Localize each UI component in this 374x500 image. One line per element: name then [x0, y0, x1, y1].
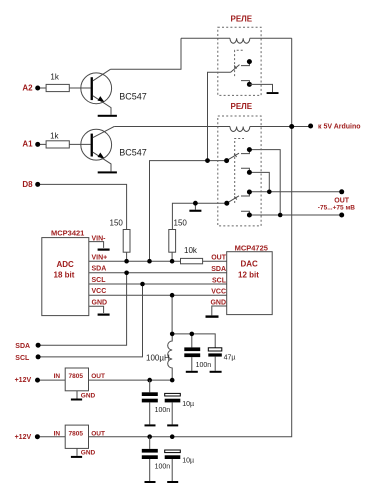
- pin GND (ADC): [89, 299, 107, 313]
- ground C4: [167, 424, 178, 426]
- svg-text:-75...+75 мВ: -75...+75 мВ: [318, 205, 355, 212]
- ground U3: [71, 399, 82, 401]
- capacitor C3 100n: [142, 380, 170, 424]
- node relay1 arm / relay2 sw1 common: [205, 158, 210, 163]
- ground relay2 sw2 common: [189, 201, 201, 212]
- wire A1 base: [38, 143, 91, 145]
- relay K1 outer dashed box: [218, 27, 261, 95]
- resistor R4 150 (right): [169, 219, 188, 253]
- svg-text:100n: 100n: [155, 407, 171, 414]
- wire A2 base: [38, 87, 91, 89]
- resistor R2 1k: [46, 132, 69, 148]
- capacitor C2 47u: [208, 348, 235, 371]
- svg-text:SDA: SDA: [211, 266, 226, 273]
- wire relay1 coil line: [181, 37, 292, 39]
- svg-text:GND: GND: [210, 300, 226, 307]
- pin SCL (DAC): [212, 277, 227, 284]
- svg-text:D8: D8: [22, 180, 33, 189]
- svg-text:OUT: OUT: [211, 254, 227, 261]
- node out2 c10u: [170, 434, 175, 439]
- svg-text:SCL: SCL: [92, 277, 107, 284]
- ground C2: [210, 371, 222, 373]
- svg-text:ADC: ADC: [57, 260, 75, 269]
- svg-text:+12V: +12V: [15, 434, 32, 441]
- relay K1 coil: [230, 38, 250, 43]
- wire 7805a output: [89, 379, 173, 381]
- ground ADC VIN-: [98, 249, 110, 251]
- svg-text:РЕЛЕ: РЕЛЕ: [231, 15, 253, 24]
- pin OUT (DAC): [211, 254, 227, 261]
- pin VIN+: [92, 254, 108, 261]
- wire ADC VIN+ / OUT line with 10k: [89, 260, 227, 262]
- relay K2 coil: [230, 127, 250, 132]
- pin SDA (ADC): [92, 266, 107, 273]
- wire SCL line: [89, 283, 227, 285]
- terminal к 5V Arduino: [308, 124, 360, 131]
- relay K2 inner dashed bracket: [235, 139, 244, 204]
- svg-text:VCC: VCC: [92, 288, 107, 295]
- wire SDA pin to SDA bus: [38, 273, 127, 345]
- node VIN+ / relay2 sw1: [147, 259, 152, 264]
- svg-text:100n: 100n: [196, 362, 212, 369]
- ground relay1: [267, 92, 279, 94]
- relay K1 arm: [231, 65, 240, 73]
- terminal OUT upper: [339, 189, 344, 194]
- relay K1 label: [231, 15, 253, 24]
- capacitor C5 100n: [142, 437, 170, 481]
- terminal D8: [22, 180, 40, 189]
- svg-text:OUT: OUT: [334, 197, 350, 204]
- capacitor C1 100n (mid): [184, 347, 211, 370]
- resistor R3 150 (left, from D8): [110, 219, 131, 253]
- wire resistor150a to OUT line: [126, 252, 128, 261]
- wire relay2 sw1 common: [150, 161, 227, 262]
- node VIN+ / R3: [124, 259, 129, 264]
- svg-text:A2: A2: [22, 83, 33, 92]
- node OUT line / R4: [170, 259, 175, 264]
- transistor Q1 BC547: [81, 69, 147, 115]
- wire SCL pin to SCL bus: [38, 284, 142, 357]
- wire 7805b input: [37, 436, 65, 438]
- ground C5: [145, 481, 156, 483]
- svg-text:18 bit: 18 bit: [54, 270, 75, 279]
- svg-text:DAC: DAC: [241, 260, 259, 269]
- svg-text:MCP3421: MCP3421: [51, 228, 84, 237]
- terminal +12V (2): [15, 434, 40, 441]
- node relay2 c1 to OUT lower: [278, 213, 283, 218]
- svg-text:GND: GND: [81, 393, 96, 400]
- terminal SDA: [15, 343, 40, 351]
- wire relay1 lower contact to ground: [249, 84, 272, 92]
- pin GND (DAC): [210, 300, 226, 316]
- relay K1 inner dashed bracket: [235, 50, 243, 76]
- svg-text:SCL: SCL: [212, 277, 227, 284]
- svg-text:к 5V Arduino: к 5V Arduino: [318, 124, 361, 131]
- svg-text:150: 150: [110, 219, 124, 228]
- ground DAC GND: [206, 315, 219, 317]
- wire relay2 contact c2 to OUT upper: [249, 172, 269, 191]
- wire relay2 sw2 common to ground and resistor: [172, 203, 226, 229]
- svg-text:10k: 10k: [184, 246, 198, 255]
- wire relay2 coil line: [114, 126, 311, 128]
- relay K1 contact lower: [241, 81, 252, 87]
- svg-text:7805: 7805: [69, 431, 84, 438]
- relay K2 sw2 contact lower: [241, 211, 252, 217]
- IC U4 7805: [54, 425, 105, 457]
- svg-text:SCL: SCL: [15, 355, 30, 362]
- terminal A1: [22, 140, 40, 149]
- node out1 c100n: [147, 378, 152, 383]
- wire 7805a input: [38, 379, 66, 381]
- svg-text:A1: A1: [22, 140, 33, 149]
- capacitor C6 10u: [165, 450, 194, 481]
- terminal A2: [22, 83, 40, 92]
- svg-text:150: 150: [174, 219, 188, 228]
- node out1 coil/10u: [170, 378, 175, 383]
- svg-text:1k: 1k: [50, 73, 59, 82]
- svg-text:100n: 100n: [155, 464, 171, 471]
- ground U4: [71, 456, 82, 458]
- ground C3: [145, 424, 156, 426]
- wire 100n mid cap top: [191, 334, 193, 348]
- capacitor C4 10u: [165, 393, 194, 424]
- node LC top: [170, 332, 175, 337]
- svg-text:IN: IN: [54, 431, 61, 438]
- relay K2 arm sw1: [224, 153, 239, 163]
- wire relay1 arm to relay2 common: [208, 72, 231, 160]
- svg-text:12 bit: 12 bit: [238, 270, 259, 279]
- svg-text:10µ: 10µ: [182, 458, 194, 465]
- IC U1 MCP3421 ADC: [42, 228, 89, 315]
- node +5V bus / relay2 coil: [289, 124, 294, 129]
- relay K2 sw1 contact upper: [241, 147, 252, 154]
- svg-text:GND: GND: [92, 299, 108, 306]
- svg-text:1k: 1k: [50, 132, 59, 141]
- relay K2 outer dashed box: [218, 116, 261, 226]
- terminal OUT lower: [339, 213, 344, 218]
- relay K2 label: [231, 102, 253, 111]
- resistor R5 10k: [181, 246, 203, 264]
- wire Q1 collector to relay1 coil: [110, 38, 181, 69]
- node SCL: [140, 282, 145, 287]
- svg-text:SDA: SDA: [92, 266, 107, 273]
- svg-text:РЕЛЕ: РЕЛЕ: [231, 102, 253, 111]
- svg-text:OUT: OUT: [91, 373, 105, 380]
- svg-text:OUT: OUT: [91, 431, 105, 438]
- terminal SCL: [15, 354, 40, 362]
- terminal +12V (1): [15, 377, 40, 384]
- svg-text:+12V: +12V: [15, 377, 32, 384]
- IC U3 7805: [54, 368, 105, 400]
- wire D8 to resistor 150: [38, 184, 127, 229]
- relay K2 arm sw2: [224, 196, 239, 206]
- svg-text:GND: GND: [81, 450, 96, 457]
- ground C6: [167, 481, 178, 483]
- svg-text:10µ: 10µ: [182, 401, 194, 408]
- ground C1: [186, 371, 198, 373]
- node 100n mid top: [190, 332, 195, 337]
- svg-text:100µH: 100µH: [146, 354, 170, 363]
- wire VCC to LC node: [171, 295, 173, 334]
- svg-text:VIN+: VIN+: [92, 254, 108, 261]
- svg-text:BC547: BC547: [119, 91, 147, 101]
- relay K2 sw2 contact upper: [241, 190, 252, 197]
- relay K1 contact upper: [241, 59, 252, 66]
- svg-text:VIN-: VIN-: [92, 235, 107, 242]
- svg-text:BC547: BC547: [119, 148, 147, 158]
- wire SDA line: [89, 272, 227, 274]
- wire OUT lower line: [249, 214, 341, 216]
- wire resistor150b to OUT line: [171, 252, 173, 261]
- resistor R1 1k: [46, 73, 69, 92]
- svg-text:7805: 7805: [69, 373, 84, 380]
- transistor Q2 BC547: [81, 127, 147, 172]
- node SDA: [124, 271, 129, 276]
- wire +5V bus vertical: [89, 38, 292, 437]
- pin VCC (DAC): [211, 289, 226, 296]
- wire OUT upper line: [249, 191, 341, 193]
- svg-text:47µ: 47µ: [224, 355, 236, 362]
- svg-text:VCC: VCC: [211, 289, 226, 296]
- inductor L1 100uH: [146, 334, 172, 380]
- IC U2 MCP4725 DAC: [227, 243, 273, 314]
- svg-text:SDA: SDA: [15, 343, 30, 350]
- pin VCC (ADC): [92, 288, 107, 295]
- ground Q1 emitter: [98, 115, 117, 117]
- label OUT: [318, 197, 355, 211]
- ground Q2 emitter: [98, 171, 117, 173]
- relay K2 sw1 contact lower: [241, 168, 252, 175]
- ground ADC GND: [98, 314, 110, 316]
- pin SDA (DAC): [211, 266, 226, 273]
- wire LC node to caps: [172, 334, 215, 348]
- node VCC: [170, 293, 175, 298]
- pin SCL (ADC): [92, 277, 107, 284]
- node relay2 c2 to OUT upper: [267, 190, 272, 195]
- wire relay2 contact c1 to OUT lower: [249, 150, 280, 215]
- node out2 c100n: [147, 434, 152, 439]
- svg-text:IN: IN: [54, 373, 61, 380]
- pin VIN-: [89, 235, 106, 248]
- wire VCC line: [89, 294, 227, 296]
- svg-text:MCP4725: MCP4725: [235, 243, 268, 252]
